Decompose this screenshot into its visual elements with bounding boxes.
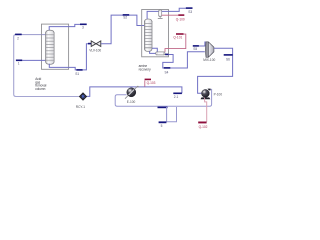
energy arrow Q-101 <box>176 33 184 35</box>
wire S1 to valve inlet <box>83 44 89 70</box>
svg-text:5: 5 <box>161 124 163 128</box>
wire energy Q-101 to reboiler <box>165 34 186 52</box>
reboiler drum <box>156 52 165 55</box>
svg-text:2.1: 2.1 <box>174 95 179 99</box>
stream arrow at reboiler outlet <box>165 54 168 56</box>
svg-text:Q-101: Q-101 <box>173 35 182 39</box>
svg-text:Q-103: Q-103 <box>147 81 156 85</box>
svg-text:VLV-100: VLV-100 <box>89 49 101 53</box>
svg-text:column: column <box>35 87 45 91</box>
stream arrow S1 <box>76 69 82 71</box>
stream arrow S6 <box>224 54 233 56</box>
svg-text:E-100: E-100 <box>127 100 136 104</box>
svg-text:Q-100: Q-100 <box>176 18 185 22</box>
wire lean amine S4 from reboiler to mixer <box>163 52 205 68</box>
stream arrow 2 <box>15 34 22 36</box>
energy arrow Q-103 <box>145 79 151 81</box>
svg-text:R: R <box>82 94 85 99</box>
svg-text:RCY-1: RCY-1 <box>76 105 85 109</box>
svg-text:S6: S6 <box>226 57 230 61</box>
stream arrow S5 <box>193 45 199 47</box>
svg-text:1: 1 <box>18 61 20 65</box>
svg-text:Q-102: Q-102 <box>199 125 208 129</box>
wire reboiler vapour return <box>152 48 157 52</box>
recycle operation RCY-1 <box>76 93 87 110</box>
svg-text:recovery: recovery <box>139 67 151 71</box>
wire sweet gas to stream 3 <box>49 24 80 30</box>
svg-text:S5: S5 <box>193 47 197 51</box>
wire regenerator overhead to condenser <box>147 11 159 19</box>
svg-text:S2: S2 <box>123 16 127 20</box>
wire valve outlet to S2 and regenerator feed <box>101 15 144 44</box>
wire condenser vapour to S3 <box>162 8 186 11</box>
wire recycle line from RCY-1 to 2.1 arrow <box>87 87 182 97</box>
stream arrow 3 <box>80 24 87 26</box>
valve VLV-100 <box>88 41 101 53</box>
svg-text:MIX-100: MIX-100 <box>203 58 215 62</box>
absorber column (trayed tower) <box>46 30 55 64</box>
cooler E-100 <box>125 86 139 105</box>
wire pump discharge to cooler E-100 <box>115 89 211 106</box>
stream arrow S2 <box>123 14 130 16</box>
svg-text:S3: S3 <box>188 10 192 14</box>
wire energy Q-102 from pump <box>205 98 207 122</box>
svg-text:3: 3 <box>82 26 84 30</box>
stream arrow 2.1 <box>173 93 182 95</box>
wire mixer outlet S6 to pump suction <box>198 48 233 93</box>
stream arrow 1 <box>16 60 22 62</box>
wire energy Q-100 from condenser <box>162 14 179 16</box>
gray icon frame around regenerator (amine recovery) <box>142 10 169 57</box>
pump P-100 <box>201 89 223 100</box>
svg-text:2: 2 <box>17 37 19 41</box>
wire energy Q-103 to cooler <box>144 80 146 86</box>
stream arrow S4 <box>164 67 171 69</box>
stream arrow 5 <box>159 121 167 123</box>
energy arrow Q-100 <box>178 14 184 16</box>
svg-text:S1: S1 <box>75 72 79 76</box>
node stream 5 drop leg <box>167 107 177 122</box>
mixer MIX-100 <box>203 42 215 62</box>
svg-text:S4: S4 <box>165 71 169 75</box>
svg-text:P-100: P-100 <box>214 93 223 97</box>
wire stream 1 into absorber <box>22 59 45 61</box>
wire regenerator bottoms to reboiler <box>150 51 156 53</box>
wire rich amine S1 from absorber bottom to valve <box>49 64 76 70</box>
gray icon frame around absorber column T-100 <box>42 24 69 69</box>
stream arrow on pump discharge line <box>158 107 168 109</box>
condenser vessel <box>158 10 163 19</box>
regenerator column (trayed tower) <box>144 19 152 51</box>
wire stream 2 recycle path from RCY-1 back to absorber <box>14 35 79 97</box>
wire makeup stream S5 into mixer <box>196 42 208 46</box>
energy arrow Q-102 <box>198 122 206 124</box>
stream arrow S3 <box>186 7 193 9</box>
